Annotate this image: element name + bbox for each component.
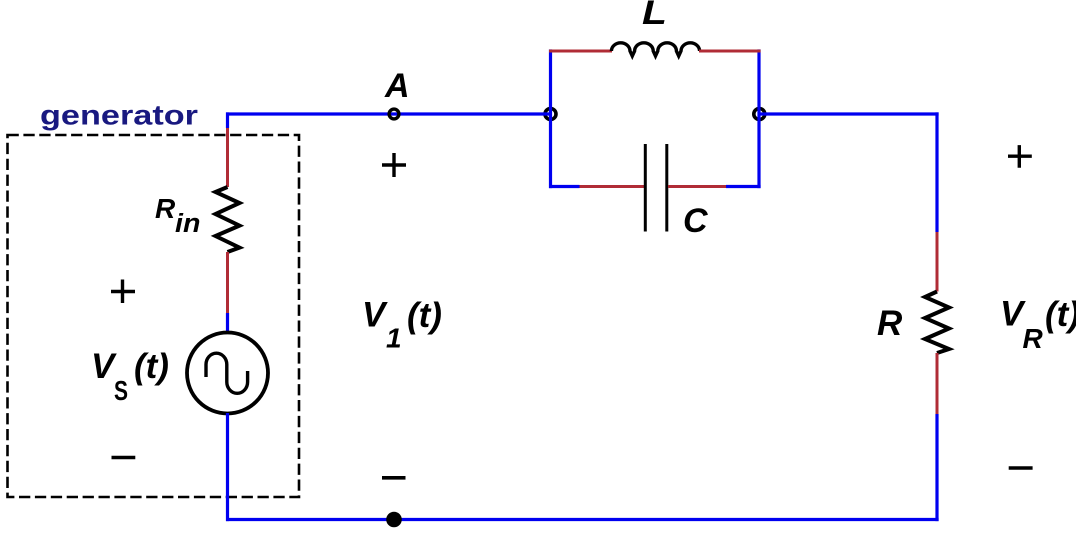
wire: R bottom lead red — [936, 353, 939, 414]
source sine wave — [206, 353, 248, 393]
wire: Rin bottom lead red — [226, 252, 229, 313]
svg-text:in: in — [175, 208, 200, 237]
junction dot — [386, 512, 402, 528]
node A circle — [389, 109, 399, 119]
capacitor C plates — [645, 144, 667, 232]
resistor R — [925, 292, 949, 354]
wire: cap right lead red — [668, 185, 726, 188]
svg-text:S: S — [114, 376, 128, 407]
svg-text:C: C — [683, 202, 708, 240]
label plus V1 — [382, 153, 406, 177]
wire: generator top vertical blue — [226, 112, 229, 128]
wire: blue to source top — [226, 313, 229, 334]
svg-text:(t): (t) — [407, 296, 442, 335]
wire: LC left vertical blue — [549, 49, 552, 188]
inductor L — [611, 43, 699, 56]
label minus generator — [112, 456, 136, 460]
wire: cap left lead red — [580, 185, 645, 188]
wire: cap right corner blue — [726, 185, 761, 188]
wire: top horizontal from generator corner to LC left node — [226, 112, 551, 115]
svg-text:1: 1 — [386, 323, 402, 354]
node LC right circle — [754, 109, 765, 120]
wire: source bottom blue — [226, 413, 229, 521]
svg-text:V: V — [362, 296, 388, 335]
source Vs circle — [187, 333, 268, 414]
svg-text:R: R — [877, 304, 903, 343]
svg-text:generator: generator — [40, 100, 198, 131]
wire: LC right node to top-right corner — [759, 112, 938, 115]
resistor Rin — [216, 187, 240, 252]
svg-text:R: R — [155, 193, 176, 224]
label plus generator — [111, 280, 135, 304]
wire: inductor left lead red — [549, 50, 612, 53]
generator dashed box — [8, 135, 300, 497]
label minus V1 — [382, 476, 406, 480]
label plus VR — [1008, 145, 1032, 168]
svg-text:R: R — [1023, 323, 1044, 354]
label minus VR — [1009, 466, 1033, 470]
svg-text:(t): (t) — [134, 347, 169, 386]
wire: R top lead red — [936, 232, 939, 292]
wire: inductor right lead red — [699, 50, 761, 53]
svg-text:(t): (t) — [1045, 295, 1076, 334]
svg-text:A: A — [384, 67, 410, 105]
wire: Rin top lead red — [226, 128, 229, 187]
wire: right vertical blue bottom — [935, 414, 938, 521]
wire: LC right vertical blue — [757, 49, 760, 188]
wire: right vertical blue top — [935, 112, 938, 232]
wire: cap left corner blue — [549, 185, 580, 188]
svg-text:L: L — [642, 0, 667, 31]
wire: bottom horizontal — [226, 518, 939, 521]
node LC left circle — [545, 109, 556, 120]
svg-text:V: V — [91, 347, 117, 386]
